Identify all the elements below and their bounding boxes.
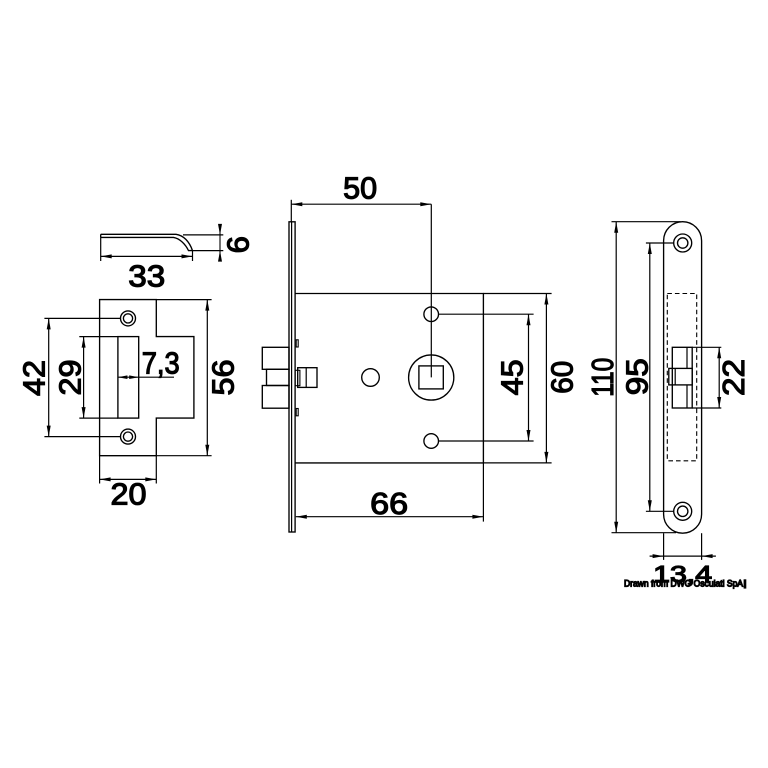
dimension 56 extension lines	[156, 299, 211, 301]
svg-text:50: 50	[343, 171, 377, 206]
latch tail divider	[305, 368, 307, 388]
dimension 110 extension lines	[612, 221, 681, 223]
svg-text:42: 42	[17, 360, 52, 396]
dimension 6 line with outside arrows	[219, 229, 221, 257]
svg-text:22: 22	[716, 359, 751, 396]
svg-text:Drawn from DWG Osculati SpA: Drawn from DWG Osculati SpA	[624, 579, 744, 589]
fixing hole middle circle	[362, 369, 380, 387]
faceplate edge plate	[289, 222, 295, 532]
latch bolt head middle recessed part	[267, 369, 290, 385]
latch bolt head lower part	[262, 386, 289, 409]
profile right extension line	[192, 251, 194, 261]
svg-text:95: 95	[620, 358, 655, 395]
screw hole top inner	[123, 314, 132, 323]
dimension 22 extension lines	[692, 346, 721, 348]
screw hole top outer	[121, 311, 136, 326]
dimension 42 extension lines	[44, 317, 120, 319]
screw hole bottom inner	[123, 432, 132, 441]
dimension 20 extension lines	[99, 456, 101, 484]
svg-text:33: 33	[128, 259, 165, 294]
profile left extension line	[100, 237, 102, 261]
strike plate profile outline (top view of curved lip plate)	[101, 234, 193, 250]
screw hole bottom outer	[121, 429, 136, 444]
lock body rectangle	[295, 294, 483, 463]
dimension 7,3 line with arrows	[118, 376, 174, 378]
svg-text:60: 60	[545, 361, 580, 394]
faceplate screw top inner	[678, 238, 688, 248]
spindle square hole	[419, 366, 443, 389]
latch box divider lower	[686, 385, 688, 408]
dimension 6 extension lines	[183, 234, 223, 236]
hole above spindle	[424, 307, 439, 322]
dimension 33 line with arrows	[101, 255, 193, 257]
dimension 110 line with arrows	[615, 222, 617, 533]
latch bolt band	[669, 368, 692, 385]
hole below spindle	[424, 434, 439, 449]
faceplate screw bottom outer	[674, 502, 692, 520]
dimension 66 right extension line	[482, 463, 484, 522]
svg-text:29: 29	[52, 360, 87, 396]
svg-text:45: 45	[494, 359, 529, 395]
dimension 42 line with arrows	[48, 318, 50, 436]
dimension 45 extension lines	[439, 313, 534, 315]
latch bolt band inner line	[674, 368, 676, 385]
dimension 95 line with arrows	[649, 243, 651, 511]
latch box divider upper	[686, 347, 688, 368]
strike plate front outline with side tab	[100, 300, 194, 456]
faceplate middle line	[291, 222, 293, 532]
dimension 13,4 line with outside arrows	[650, 555, 716, 557]
svg-text:6: 6	[220, 236, 255, 253]
svg-text:20: 20	[111, 477, 147, 512]
dimension 66 line with arrows	[296, 516, 484, 518]
dimension 95 extension lines	[646, 242, 674, 244]
svg-text:7,3: 7,3	[142, 346, 180, 381]
faceplate screw top outer	[674, 234, 692, 252]
faceplate screw bottom inner	[678, 506, 688, 516]
faceplate stadium outline	[664, 222, 702, 534]
latch guide lower	[296, 409, 298, 416]
svg-text:56: 56	[206, 360, 241, 396]
dimension 22 line with arrows	[718, 347, 720, 408]
spindle circle	[409, 355, 454, 400]
dimension 29 extension lines	[79, 336, 118, 338]
latch guide upper	[296, 340, 298, 347]
dimension 13,4 extension lines	[663, 533, 665, 560]
dimension 29 line with arrows	[83, 337, 85, 419]
dimension 50 extension line above faceplate	[290, 200, 292, 222]
hidden lock body dashed rectangle	[667, 294, 696, 461]
latch opening rectangle	[118, 337, 139, 419]
svg-text:66: 66	[370, 486, 408, 521]
dimension 60 extension lines	[483, 293, 551, 295]
svg-text:110: 110	[585, 358, 620, 397]
latch box outline	[672, 347, 692, 408]
dimension 45 line with arrows	[528, 314, 530, 441]
dimension 60 line with arrows	[545, 294, 547, 463]
dimension 50 line with arrows	[291, 203, 431, 205]
extension line from dimension 50 to spindle center	[430, 204, 432, 377]
latch tail inside body	[298, 368, 317, 388]
latch bolt head upper part	[262, 347, 289, 369]
dimension 56 line with arrows	[206, 300, 208, 456]
dimension 20 line with arrows	[100, 478, 157, 480]
footer cursor bar	[744, 579, 747, 588]
latch pass-through in faceplate	[295, 370, 300, 385]
